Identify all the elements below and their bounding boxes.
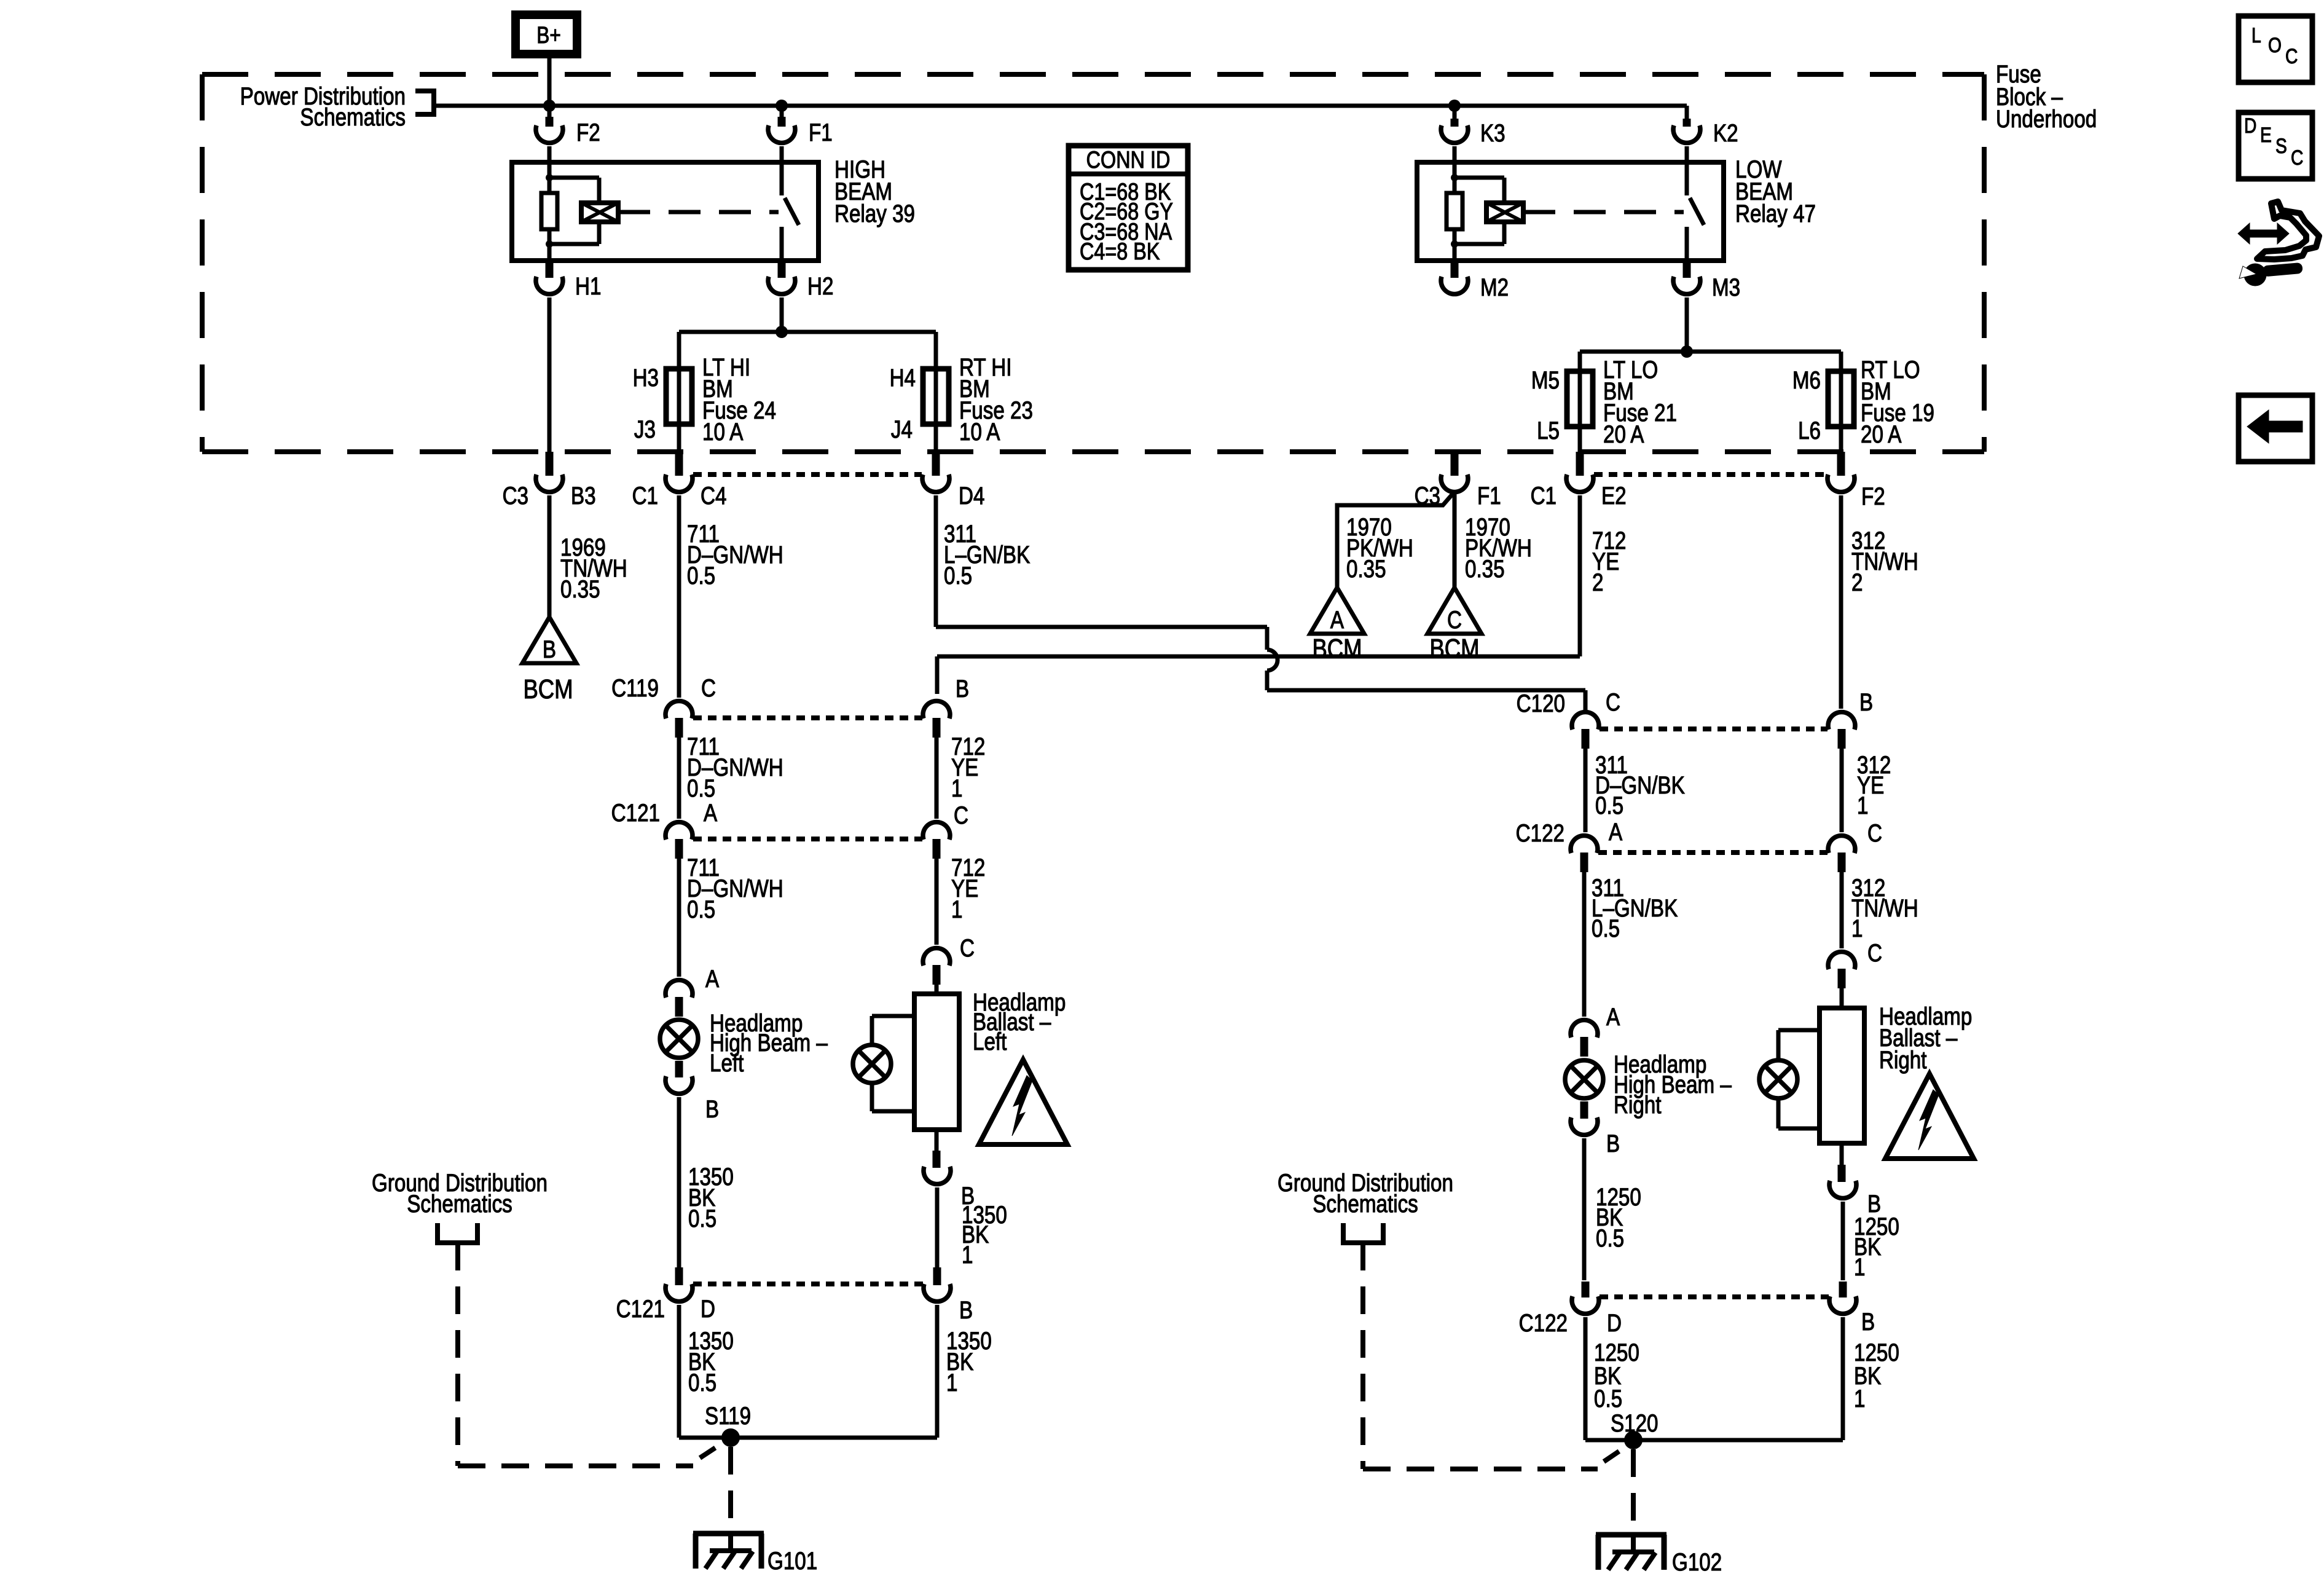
svg-text:B: B <box>705 1095 719 1123</box>
dashed ground distribution wire right to S120 <box>1363 1243 1628 1469</box>
icon box LOC <box>2239 16 2312 82</box>
svg-text:10 A: 10 A <box>702 418 744 446</box>
wire H1 to fuse block exit B3 <box>548 297 552 452</box>
connector B headlamp high beam left <box>665 1061 719 1123</box>
wire 1350 BK 1 ballast left to C121 B <box>937 1187 1007 1269</box>
connector H1 (relay 39 coil output) <box>536 261 601 300</box>
junction dot at K3 branch <box>1448 100 1461 112</box>
wire 1250 BK 0.5 headlamp right to C122 D <box>1584 1138 1641 1280</box>
svg-text:0.5: 0.5 <box>687 774 715 802</box>
svg-text:L5: L5 <box>1537 417 1560 444</box>
wire 1250 BK 1 C122 B to splice S120 <box>1843 1317 1899 1440</box>
svg-text:K3: K3 <box>1480 119 1505 147</box>
svg-text:C121: C121 <box>611 799 660 827</box>
svg-text:C: C <box>2291 146 2303 170</box>
icon box back arrow <box>2239 395 2312 462</box>
connector A headlamp high beam right <box>1571 1003 1620 1057</box>
svg-text:B: B <box>959 1296 973 1324</box>
svg-text:BCM: BCM <box>1429 633 1479 664</box>
wire 312 TN/WH 2 from F2 to C120 B <box>1841 495 1918 709</box>
svg-text:Schematics: Schematics <box>300 103 406 131</box>
svg-text:D: D <box>2244 114 2256 138</box>
wire M3 to low-beam fuse feed split <box>1580 297 1841 371</box>
svg-text:C4: C4 <box>701 482 726 510</box>
dotted connector line C122 A-C <box>1598 850 1827 855</box>
connector C122 pin B <box>1829 1282 1875 1336</box>
svg-text:M3: M3 <box>1712 274 1740 301</box>
relay LOW BEAM Relay 47 (coil, X-box, switch) <box>1417 146 1724 261</box>
dotted connector line C119 C-B <box>693 715 922 720</box>
svg-text:Left: Left <box>710 1049 744 1077</box>
svg-text:L: L <box>2251 24 2261 47</box>
svg-text:C: C <box>701 674 716 702</box>
svg-text:1: 1 <box>951 774 962 802</box>
connector F1 (high beam relay switch feed) <box>768 117 833 146</box>
svg-text:1: 1 <box>962 1241 973 1269</box>
connector C122 pin A <box>1516 818 1623 872</box>
wire into ballast left <box>935 985 939 994</box>
connector C121 pin D <box>616 1267 715 1323</box>
battery feed B+ box <box>516 15 577 54</box>
svg-text:F1: F1 <box>1477 482 1501 510</box>
destination triangle A (BCM) <box>1310 588 1364 664</box>
connector H2 (relay 39 switch output) <box>768 261 833 300</box>
connector C119 pin B <box>923 675 969 738</box>
svg-text:Relay 39: Relay 39 <box>834 200 915 227</box>
dotted connector line C122 D-B <box>1600 1294 1829 1299</box>
power bus wire from B+ to relays <box>434 58 1687 119</box>
svg-text:Schematics: Schematics <box>1313 1190 1418 1218</box>
label Ground Distribution Schematics left with bracket <box>372 1169 548 1243</box>
connector C1 pin E2 (712 circuit) <box>1531 452 1627 510</box>
svg-text:F2: F2 <box>576 119 600 146</box>
wire 711 D-GN/WH 0.5 C119 to C121 <box>679 733 783 819</box>
svg-text:M6: M6 <box>1792 366 1821 394</box>
svg-text:0.5: 0.5 <box>1594 1385 1622 1412</box>
fuse LT LO BM Fuse 21 20 A (M5/L5) <box>1531 356 1677 448</box>
label Fuse Block - Underhood <box>1996 60 2097 133</box>
svg-text:G101: G101 <box>767 1547 817 1575</box>
svg-text:D4: D4 <box>959 482 984 510</box>
svg-text:C122: C122 <box>1516 819 1564 847</box>
connector F2 (high beam relay coil feed) <box>536 117 600 146</box>
svg-text:0.5: 0.5 <box>687 896 715 923</box>
wire 312 YE 1 C120 to C122 <box>1842 749 1891 832</box>
connector M3 (relay 47 switch output) <box>1673 261 1740 301</box>
dotted connector line C121 D-B <box>693 1282 923 1286</box>
dotted connector line C121 A-C <box>693 837 922 841</box>
connector B headlamp ballast right <box>1829 1143 1881 1218</box>
svg-text:0.5: 0.5 <box>1595 792 1623 819</box>
wire 711 D-GN/WH 0.5 from C4 to C119 <box>679 495 783 698</box>
wire 311 L-GN/BK 0.5 from D4 with crossover hop to C120 C <box>936 495 1585 710</box>
svg-text:BCM: BCM <box>523 674 573 704</box>
svg-text:C3: C3 <box>503 482 528 510</box>
svg-text:Underhood: Underhood <box>1996 105 2097 133</box>
svg-text:B: B <box>1859 688 1873 716</box>
splice rail S119 <box>679 1402 937 1447</box>
lamp headlamp high beam left <box>660 1009 828 1077</box>
destination triangle B (BCM) <box>522 617 576 704</box>
fuse LT HI BM Fuse 24 10 A (H3/J3) <box>633 353 776 446</box>
svg-text:A: A <box>1606 1003 1620 1031</box>
svg-text:A: A <box>1609 818 1623 846</box>
svg-text:S: S <box>2275 135 2287 158</box>
svg-text:0.5: 0.5 <box>688 1205 716 1232</box>
wire 712 YE 1 C121 to ballast connector C <box>936 854 985 945</box>
svg-text:D: D <box>1607 1309 1622 1337</box>
connector C at headlamp ballast right <box>1828 939 1882 988</box>
wire 1250 BK 1 ballast right to C122 B <box>1843 1202 1899 1281</box>
svg-text:0.35: 0.35 <box>560 575 600 603</box>
fuse RT HI BM Fuse 23 10 A (H4/J4) <box>890 353 1033 446</box>
svg-text:H4: H4 <box>890 364 916 392</box>
high voltage warning triangle left <box>979 1060 1067 1144</box>
CONN ID table <box>1069 146 1188 270</box>
svg-text:B: B <box>956 675 969 703</box>
dotted connector line C120 C-B <box>1600 726 1827 731</box>
wire H2 to high-beam fuse feed split <box>679 297 936 369</box>
connector C122 pin C <box>1828 819 1882 872</box>
svg-text:B: B <box>1606 1130 1620 1157</box>
connector C120 pin C <box>1517 688 1620 749</box>
dashed ground distribution wire left to S119 <box>458 1243 725 1466</box>
svg-text:1: 1 <box>951 896 962 923</box>
svg-text:C4=8 BK: C4=8 BK <box>1080 238 1160 265</box>
junction dot M3 fuse split <box>1681 345 1693 358</box>
junction dot at F1 branch <box>775 100 788 112</box>
connector pin D4 (311 circuit) <box>922 452 984 510</box>
connector pin F2 (312 circuit) <box>1827 452 1885 510</box>
svg-text:E2: E2 <box>1601 482 1627 510</box>
wire 1969 TN/WH 0.35 to BCM <box>549 495 627 617</box>
wire 712 YE 2 from E2 across to left harness <box>937 495 1626 694</box>
icon box DESC <box>2239 112 2312 179</box>
wire 1350 BK 1 C121 B to splice S119 <box>937 1305 992 1438</box>
svg-text:Left: Left <box>973 1028 1007 1055</box>
svg-text:0.5: 0.5 <box>944 562 972 589</box>
svg-text:H1: H1 <box>575 272 601 300</box>
svg-text:B+: B+ <box>536 22 560 48</box>
svg-text:C: C <box>1447 606 1462 634</box>
svg-text:10 A: 10 A <box>959 418 1000 446</box>
wire 312 TN/WH 1 C122 to ballast connector C <box>1842 872 1918 948</box>
connector B headlamp high beam right <box>1571 1101 1620 1157</box>
svg-text:1: 1 <box>1854 1253 1865 1281</box>
svg-text:M5: M5 <box>1531 366 1560 394</box>
svg-text:CONN ID: CONN ID <box>1086 146 1171 173</box>
svg-text:C122: C122 <box>1519 1309 1568 1337</box>
icon adjust: double arrow, hand outline, wrench <box>2238 202 2319 286</box>
svg-text:D: D <box>701 1295 715 1323</box>
ground symbol G102 <box>1596 1535 1722 1576</box>
connector K2 (low beam relay switch feed) <box>1673 119 1738 147</box>
connector C121 pin B <box>924 1267 973 1324</box>
svg-text:H3: H3 <box>633 364 659 392</box>
svg-text:J3: J3 <box>634 415 656 443</box>
svg-text:20 A: 20 A <box>1861 420 1902 448</box>
svg-text:S120: S120 <box>1611 1409 1659 1437</box>
wire 1970 PK/WH 0.35 branch to BCM C <box>1454 492 1532 588</box>
svg-text:A: A <box>704 799 718 827</box>
connector C120 pin B <box>1828 688 1873 749</box>
svg-text:M2: M2 <box>1480 274 1509 301</box>
wire 1350 BK 0.5 C121 D to splice S119 <box>679 1305 734 1438</box>
destination triangle C (BCM) <box>1427 588 1482 664</box>
svg-text:1: 1 <box>1854 1385 1865 1412</box>
svg-text:0.5: 0.5 <box>1596 1224 1624 1252</box>
high voltage warning triangle right <box>1885 1074 1974 1159</box>
svg-text:A: A <box>705 965 720 993</box>
svg-text:S119: S119 <box>705 1402 751 1430</box>
svg-text:C: C <box>2285 45 2298 68</box>
wires fuses down to fuse block bottom edge <box>679 424 1841 452</box>
svg-text:1: 1 <box>1851 915 1863 942</box>
svg-text:Relay 47: Relay 47 <box>1735 200 1816 227</box>
svg-text:20 A: 20 A <box>1603 420 1644 448</box>
svg-text:2: 2 <box>1851 569 1863 596</box>
wire 712 YE 1 C119 to C121 <box>936 733 985 819</box>
relay HIGH BEAM Relay 39 (coil, X-box, switch) <box>512 146 819 261</box>
svg-text:1: 1 <box>946 1369 957 1396</box>
junction dot H2 fuse split <box>775 326 788 338</box>
svg-text:C: C <box>1867 819 1882 847</box>
svg-text:K2: K2 <box>1713 119 1738 147</box>
connector C3 pin F1 (1970 circuit) <box>1415 452 1501 510</box>
svg-text:0.35: 0.35 <box>1346 555 1386 583</box>
dashed wire S120 to ground G102 <box>1631 1449 1636 1533</box>
svg-text:F2: F2 <box>1861 482 1885 510</box>
wire 1350 BK 0.5 headlamp left to C121 D <box>679 1097 734 1267</box>
svg-text:0.35: 0.35 <box>1465 555 1505 583</box>
wire 311 L-GN/BK 0.5 C122 to headlamp right A <box>1584 872 1678 1017</box>
splice rail S120 <box>1585 1409 1843 1449</box>
svg-text:0.5: 0.5 <box>688 1369 716 1396</box>
fuse block - underhood dashed boundary box <box>202 74 1984 452</box>
svg-text:B: B <box>1861 1308 1875 1336</box>
svg-text:A: A <box>1330 606 1345 634</box>
svg-text:C: C <box>1867 939 1882 967</box>
lamp headlamp high beam right <box>1565 1050 1732 1119</box>
connector A headlamp high beam left <box>665 965 720 1017</box>
svg-text:0.5: 0.5 <box>1592 915 1620 942</box>
dashed wire S119 to ground G101 <box>728 1447 733 1532</box>
svg-text:B: B <box>543 636 556 663</box>
label Ground Distribution Schematics right with bracket <box>1278 1169 1453 1243</box>
svg-text:2: 2 <box>1592 569 1603 596</box>
connector C3 pin B3 (1969 circuit) <box>503 452 596 510</box>
connector M2 (relay 47 coil output) <box>1441 261 1509 301</box>
connector C at headlamp ballast left <box>923 934 975 985</box>
connector C1 pin C4 (711 circuit) <box>632 452 727 510</box>
svg-text:O: O <box>2268 34 2282 57</box>
svg-text:F1: F1 <box>809 119 833 146</box>
svg-text:C119: C119 <box>611 674 659 702</box>
svg-text:Right: Right <box>1879 1046 1926 1074</box>
junction dot at B+ bus <box>543 100 555 112</box>
svg-text:0.5: 0.5 <box>687 562 715 589</box>
svg-text:J4: J4 <box>891 415 913 443</box>
wire 311 D-GN/BK 0.5 C120 to C122 <box>1585 749 1685 832</box>
ground symbol G101 <box>693 1534 817 1575</box>
label Power Distribution Schematics with bracket <box>240 82 434 131</box>
connector C121 pin C <box>923 801 968 859</box>
svg-text:C: C <box>960 934 975 962</box>
wire 1970 PK/WH 0.35 branch to BCM A <box>1337 492 1454 588</box>
svg-text:C: C <box>954 801 968 829</box>
svg-text:H2: H2 <box>807 272 833 300</box>
svg-text:C120: C120 <box>1517 690 1565 717</box>
dotted connector line E2-F2 <box>1594 472 1827 477</box>
dotted connector line C4-D4 <box>693 472 922 477</box>
connector C119 pin C <box>611 674 716 738</box>
svg-text:G102: G102 <box>1672 1548 1722 1576</box>
connector C121 pin A <box>611 799 718 859</box>
headlamp ballast left box with lamp <box>853 988 1066 1130</box>
fuse RT LO BM Fuse 19 20 A (M6/L6) <box>1792 356 1934 448</box>
svg-text:E: E <box>2260 124 2272 147</box>
svg-text:C121: C121 <box>616 1295 665 1323</box>
svg-text:Schematics: Schematics <box>407 1190 512 1218</box>
svg-text:C: C <box>1606 688 1620 716</box>
headlamp ballast right box with lamp <box>1759 1002 1972 1143</box>
wire into ballast right <box>1840 988 1844 1008</box>
connector K3 (low beam relay coil feed) <box>1441 119 1505 147</box>
svg-text:Right: Right <box>1614 1091 1661 1119</box>
svg-text:L6: L6 <box>1798 417 1821 444</box>
wire 711 D-GN/WH 0.5 C121 to headlamp left A <box>679 854 783 977</box>
connector B headlamp ballast left <box>924 1130 975 1210</box>
svg-text:C1: C1 <box>632 482 658 510</box>
connector C122 pin D <box>1519 1282 1622 1337</box>
svg-text:1: 1 <box>1857 792 1868 819</box>
svg-text:BCM: BCM <box>1312 633 1362 664</box>
wire 1250 BK 0.5 C122 D to splice S120 <box>1585 1317 1639 1440</box>
svg-text:B3: B3 <box>571 482 596 510</box>
svg-text:C1: C1 <box>1531 482 1557 510</box>
